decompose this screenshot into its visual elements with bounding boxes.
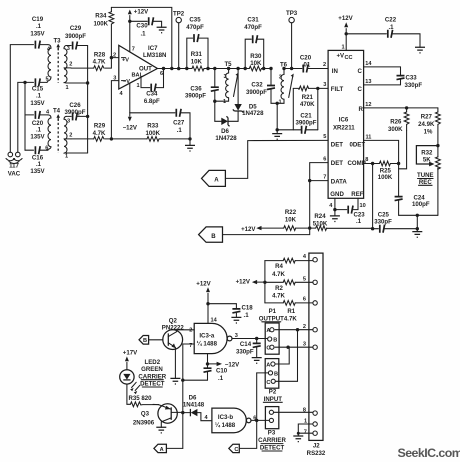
ground C14 — [252, 358, 262, 364]
svg-text:XR2211: XR2211 — [333, 124, 355, 131]
svg-text:TP3: TP3 — [286, 10, 298, 17]
svg-text:C15: C15 — [32, 86, 44, 93]
svg-text:3900pF: 3900pF — [65, 33, 86, 40]
power +12V IC3a — [196, 281, 211, 324]
svg-text:3900pF: 3900pF — [185, 93, 206, 100]
svg-text:.1: .1 — [218, 375, 224, 382]
svg-text:R28: R28 — [94, 51, 106, 58]
svg-text:R30: R30 — [250, 53, 262, 60]
svg-text:T5: T5 — [224, 61, 232, 68]
ground C18 — [231, 317, 241, 323]
op-amp IC7 LM318N — [113, 45, 166, 97]
wire IC3a bottom pin — [207, 354, 209, 364]
capacitor C18 — [208, 304, 253, 319]
svg-text:REF: REF — [351, 191, 363, 198]
svg-text:2: 2 — [303, 324, 306, 330]
svg-text:R31: R31 — [191, 51, 203, 58]
svg-text:2: 2 — [189, 327, 192, 333]
node P1A junction — [296, 328, 299, 331]
svg-text:BAL: BAL — [132, 73, 144, 79]
svg-text:R2: R2 — [275, 285, 283, 292]
svg-text:10K: 10K — [285, 217, 297, 224]
node R27/R32 junction — [436, 144, 439, 147]
wire P1C to J2 pin3 — [275, 346, 313, 348]
svg-text:A: A — [266, 362, 270, 368]
svg-text:.1: .1 — [388, 24, 394, 31]
node junction at C15 row — [23, 81, 26, 84]
svg-text:FILT: FILT — [331, 86, 344, 93]
svg-text:13: 13 — [365, 79, 371, 85]
svg-text:2: 2 — [69, 62, 72, 68]
svg-text:14: 14 — [365, 61, 372, 67]
wire P1B input — [265, 338, 267, 340]
svg-text:24.9K: 24.9K — [418, 121, 435, 128]
svg-text:.1: .1 — [177, 127, 183, 134]
svg-text:0DET: 0DET — [350, 142, 366, 149]
capacitor C36 — [185, 67, 219, 101]
svg-text:10K: 10K — [250, 60, 262, 67]
svg-text:C18: C18 — [242, 304, 254, 311]
svg-text:135V: 135V — [30, 168, 45, 175]
svg-text:¼ 1488: ¼ 1488 — [197, 341, 218, 348]
svg-text:IC6: IC6 — [339, 117, 349, 124]
svg-text:R24: R24 — [314, 213, 326, 220]
svg-text:R34: R34 — [95, 12, 107, 19]
svg-text:OUT: OUT — [139, 65, 152, 72]
svg-text:14: 14 — [211, 318, 218, 324]
wire IC3b output row — [251, 419, 269, 421]
svg-text:6: 6 — [45, 146, 48, 152]
svg-text:P2: P2 — [269, 388, 277, 395]
node T3 pin1 junction — [86, 81, 89, 84]
gate IC3-b 1488 — [205, 408, 257, 433]
inductor T5 — [215, 61, 239, 105]
test point TP3 — [286, 10, 298, 70]
svg-text:RS232: RS232 — [307, 450, 326, 457]
svg-text:330pF: 330pF — [405, 82, 423, 89]
wire COMP pin8 row — [364, 163, 380, 165]
svg-text:2: 2 — [69, 133, 72, 139]
svg-text:470K: 470K — [300, 101, 315, 108]
capacitor C19 — [30, 16, 48, 49]
node feedback at output — [170, 67, 173, 70]
ground R33 — [185, 139, 195, 151]
svg-text:+V: +V — [122, 57, 129, 63]
svg-text:R26: R26 — [390, 119, 402, 126]
svg-text:R22: R22 — [285, 209, 297, 216]
svg-text:C26: C26 — [69, 102, 81, 109]
transistor Q3 2N3906 — [133, 404, 183, 428]
wire P2A riser to P1C row — [275, 347, 289, 364]
wire P1A to J2 pin2 — [275, 329, 313, 331]
diode D6 1N4728 — [215, 116, 238, 142]
svg-text:6.8pF: 6.8pF — [144, 98, 160, 105]
capacitor C34 feedback — [141, 67, 165, 105]
node IC7 pin2 junction — [110, 56, 113, 59]
svg-text:R32: R32 — [421, 149, 433, 156]
wire IC3a output row — [232, 338, 268, 340]
wire T4 pin1 row — [66, 152, 88, 154]
svg-text:R1: R1 — [287, 308, 295, 315]
wire B to Q2 base — [149, 339, 163, 341]
svg-text:PN2222: PN2222 — [162, 325, 185, 332]
capacitor C24 — [395, 164, 438, 216]
connector J1 117VAC terminal right — [9, 152, 22, 163]
capacitor C30 — [130, 17, 162, 37]
svg-text:135V: 135V — [30, 100, 45, 107]
capacitor C20 — [25, 111, 48, 140]
svg-text:5K: 5K — [423, 156, 431, 163]
node R33 ground junction — [188, 137, 191, 140]
svg-text:C35: C35 — [189, 17, 201, 24]
svg-text:P3: P3 — [268, 430, 276, 437]
capacitor C26 — [64, 102, 87, 120]
wire T6 ground riser — [276, 103, 278, 133]
svg-text:IC3-a: IC3-a — [199, 333, 215, 340]
node B flag small — [139, 336, 149, 345]
wire R4/R2/R1 vertical — [264, 261, 266, 303]
svg-text:510K: 510K — [313, 220, 328, 227]
svg-text:D6: D6 — [189, 394, 197, 401]
wire R26 bottom jog — [399, 131, 407, 169]
capacitor C31 parallel — [244, 17, 266, 71]
node pin3/R29/R33 junction — [110, 137, 113, 140]
wire A small to Q3 riser — [166, 447, 182, 449]
svg-text:+12V: +12V — [196, 281, 211, 288]
svg-text:A: A — [160, 447, 164, 453]
ground T6 — [272, 134, 282, 140]
svg-text:12: 12 — [365, 102, 371, 108]
svg-text:Q2: Q2 — [169, 317, 178, 324]
svg-text:T4: T4 — [53, 108, 61, 115]
svg-text:10: 10 — [360, 203, 366, 209]
svg-text:J2: J2 — [313, 443, 320, 450]
svg-text:Q3: Q3 — [141, 410, 150, 417]
wire output row — [157, 68, 192, 70]
ground Q2 emitter — [170, 378, 180, 384]
svg-text:R: R — [359, 106, 364, 113]
svg-text:LM318N: LM318N — [143, 52, 166, 59]
svg-text:IC7: IC7 — [148, 45, 158, 52]
test point TP2 — [173, 11, 185, 71]
node R22/R24/DATA junction — [308, 226, 311, 229]
transistor Q2 PN2222 — [162, 317, 194, 378]
svg-text:C22: C22 — [385, 17, 397, 24]
svg-text:330pF: 330pF — [236, 348, 254, 355]
potentiometer R32 5K — [416, 146, 440, 216]
svg-text:DATA: DATA — [331, 179, 348, 186]
resistor R34 — [94, 7, 114, 57]
svg-text:DET: DET — [331, 142, 343, 149]
wire P3 top to J2 pin8 — [274, 411, 313, 413]
svg-text:IN: IN — [332, 68, 338, 75]
node T6/C32 junction — [276, 102, 279, 105]
svg-text:2: 2 — [323, 62, 326, 68]
svg-text:1N4148: 1N4148 — [183, 402, 205, 409]
svg-text:7: 7 — [132, 47, 135, 53]
wire DATA pin7 row — [310, 180, 328, 182]
capacitor C29 — [65, 25, 88, 49]
svg-text:C29: C29 — [70, 25, 82, 32]
svg-text:5: 5 — [303, 276, 306, 282]
svg-text:R4: R4 — [275, 263, 283, 270]
resistor R22 — [284, 209, 316, 230]
svg-text:3: 3 — [224, 74, 227, 80]
svg-text:.1: .1 — [36, 93, 42, 100]
svg-text:+12V: +12V — [241, 226, 256, 233]
resistor R21 and FILT row — [293, 86, 328, 108]
resistor R4 — [265, 258, 313, 278]
svg-text:6: 6 — [303, 297, 306, 303]
svg-text:6: 6 — [323, 156, 326, 162]
svg-text:SeekIC.com: SeekIC.com — [398, 446, 460, 460]
ground J2 — [293, 436, 303, 442]
node C21 row junction — [276, 128, 279, 131]
IC U6 XR2211 — [323, 45, 372, 209]
svg-text:100K: 100K — [94, 20, 109, 27]
capacitor C27 — [130, 109, 190, 139]
connector P1 OUTPUT — [259, 308, 284, 354]
svg-text:135V: 135V — [30, 133, 45, 140]
power +17V — [123, 350, 138, 370]
diode D5 zener 1N4728 — [233, 67, 264, 122]
svg-text:1: 1 — [223, 99, 226, 105]
node C24 row junction — [416, 214, 419, 217]
svg-text:B: B — [143, 338, 147, 344]
svg-text:LED2: LED2 — [145, 359, 161, 366]
svg-text:8: 8 — [365, 157, 368, 163]
svg-text:5: 5 — [323, 134, 326, 140]
wire pin2 row — [111, 57, 118, 59]
svg-text:C36: C36 — [190, 85, 202, 92]
gate IC3-a 1488 — [189, 318, 238, 354]
capacitor C32 — [246, 67, 277, 104]
wire riser to D6 row — [214, 101, 216, 121]
node COMP junction — [371, 162, 374, 165]
svg-text:3: 3 — [303, 341, 306, 347]
capacitor C35 parallel — [185, 17, 210, 71]
capacitor C25 — [373, 211, 418, 232]
wire C to P2B riser — [239, 373, 256, 449]
svg-text:300K: 300K — [388, 126, 403, 133]
svg-text:C10: C10 — [216, 368, 228, 375]
svg-text:+12V: +12V — [338, 15, 353, 22]
svg-text:.1: .1 — [356, 218, 362, 225]
svg-text:−12V: −12V — [123, 125, 138, 132]
svg-text:D6: D6 — [221, 128, 229, 135]
svg-text:7: 7 — [304, 430, 307, 436]
wire COMP riser to C25 — [372, 164, 374, 229]
svg-text:.01: .01 — [302, 61, 311, 68]
label 117 VAC — [8, 163, 21, 178]
svg-text:C: C — [358, 86, 363, 93]
node Q3 collector junction — [181, 411, 184, 414]
svg-text:C34: C34 — [146, 91, 158, 98]
svg-text:4.7K: 4.7K — [272, 293, 285, 300]
ground Q3 — [156, 427, 166, 433]
svg-text:100K: 100K — [146, 130, 161, 137]
power +12V arrow row — [241, 226, 284, 233]
resistor R27 — [418, 108, 440, 146]
svg-text:2: 2 — [113, 52, 116, 58]
svg-text:11: 11 — [366, 135, 372, 141]
svg-text:3900pF: 3900pF — [246, 89, 267, 96]
svg-text:3900pF: 3900pF — [295, 120, 316, 127]
resistor R1 — [265, 301, 313, 323]
svg-text:1: 1 — [66, 85, 69, 91]
wire pin12 row — [364, 107, 438, 109]
wire IC7 pin3 riser — [111, 81, 118, 139]
resistor R35 820 — [127, 395, 159, 407]
wire left AC riser — [10, 45, 33, 153]
svg-text:CC: CC — [345, 55, 353, 61]
svg-text:1N4728: 1N4728 — [215, 135, 237, 142]
svg-text:6: 6 — [160, 71, 163, 77]
wire J2 pins 1 and 7 to ground — [297, 424, 313, 436]
svg-text:C30: C30 — [136, 23, 148, 30]
node C14 junction — [255, 337, 258, 340]
power +12V arrow row2 — [236, 279, 267, 286]
svg-text:C20: C20 — [300, 54, 312, 61]
svg-text:330pF: 330pF — [374, 218, 392, 225]
svg-text:GND: GND — [330, 191, 344, 198]
svg-text:GREEN: GREEN — [141, 366, 163, 373]
connector P2 INPUT — [263, 359, 282, 403]
svg-text:T3: T3 — [53, 38, 61, 45]
resistor R31 — [191, 51, 215, 71]
capacitor C15 — [25, 78, 47, 106]
node A flag small — [154, 444, 167, 453]
capacitor C20 .01 — [284, 54, 328, 72]
node A flag — [202, 170, 226, 186]
wire P2C riser to P1A row — [275, 330, 297, 382]
label LED2 GREEN CARRIER DETECT — [138, 359, 166, 388]
svg-text:R33: R33 — [147, 122, 159, 129]
svg-text:1: 1 — [137, 83, 140, 89]
node C26 junction — [86, 115, 89, 118]
svg-text:117: 117 — [9, 163, 19, 170]
node C25 row ground junction — [416, 227, 419, 230]
svg-text:C33: C33 — [406, 75, 418, 82]
svg-text:7: 7 — [323, 174, 326, 180]
svg-text:4.7K: 4.7K — [272, 271, 285, 278]
power +12V IC7 — [128, 8, 149, 51]
ground IC6 pin4 — [330, 198, 340, 221]
svg-text:4.7K: 4.7K — [93, 59, 106, 66]
svg-text:1%: 1% — [424, 128, 433, 135]
wire T3 secondary return riser — [87, 46, 89, 154]
wire B to DATA riser — [223, 163, 329, 235]
node C flag small — [229, 444, 240, 453]
label TUNE REC — [417, 172, 434, 186]
svg-text:IC3-b: IC3-b — [218, 414, 234, 421]
svg-text:135V: 135V — [30, 31, 45, 38]
capacitor C21 — [277, 88, 318, 133]
svg-text:+12V: +12V — [134, 8, 149, 15]
connector J1 117VAC terminal left — [6, 152, 15, 161]
svg-text:C32: C32 — [251, 82, 263, 89]
capacitor C16 — [25, 146, 48, 175]
resistor R26 — [388, 106, 409, 133]
svg-text:B: B — [274, 371, 278, 377]
svg-text:100K: 100K — [378, 174, 393, 181]
svg-text:B: B — [211, 233, 216, 240]
svg-text:¼ 1488: ¼ 1488 — [215, 422, 236, 429]
node COMP/C25 junction — [371, 227, 374, 230]
svg-text:10K: 10K — [191, 58, 203, 65]
wire feedback top rail — [111, 7, 171, 68]
connector P3 CARRIER DETECT — [258, 407, 286, 452]
svg-text:1: 1 — [65, 154, 68, 160]
svg-text:COMP: COMP — [348, 160, 366, 167]
resistor R24 — [313, 213, 373, 231]
svg-text:R35 820: R35 820 — [128, 395, 152, 402]
wire junction riser to C25 row — [416, 215, 418, 228]
svg-text:.1: .1 — [36, 23, 42, 30]
wire cap bus riser — [24, 82, 26, 150]
svg-text:1: 1 — [279, 99, 282, 105]
node P2B riser junction — [255, 419, 258, 422]
svg-text:A: A — [214, 177, 219, 184]
svg-text:R27: R27 — [421, 114, 433, 121]
svg-text:C19: C19 — [32, 16, 44, 23]
capacitor C23 — [335, 198, 365, 225]
capacitor C10 — [183, 364, 228, 382]
resistor R25 — [378, 161, 401, 181]
wire A to DET pin5 — [225, 140, 328, 178]
ground C30 — [157, 27, 167, 33]
svg-text:C14: C14 — [240, 341, 252, 348]
svg-text:4.7K: 4.7K — [93, 130, 106, 137]
LED2 — [120, 370, 140, 401]
power -12V IC7 — [123, 113, 138, 132]
svg-text:+12V: +12V — [236, 279, 251, 286]
svg-text:470pF: 470pF — [244, 24, 262, 31]
power -12V IC3a — [208, 362, 241, 369]
svg-text:R29: R29 — [94, 122, 106, 129]
svg-text:C21: C21 — [300, 112, 312, 119]
svg-text:DET: DET — [331, 160, 343, 167]
svg-text:VAC: VAC — [8, 171, 21, 178]
wire pin7/A riser — [182, 344, 184, 448]
diode D6 1N4148 — [183, 394, 212, 420]
svg-text:.1: .1 — [140, 30, 146, 37]
svg-text:C31: C31 — [247, 17, 259, 24]
svg-text:B: B — [273, 338, 277, 344]
capacitor C22 — [346, 17, 420, 48]
capacitor C14 — [236, 339, 261, 358]
svg-text:3900pF: 3900pF — [64, 109, 85, 116]
svg-text:1: 1 — [342, 45, 345, 51]
svg-text:8: 8 — [303, 407, 306, 413]
ground C22 — [415, 47, 425, 53]
capacitor C33 pins14-13 — [364, 67, 423, 89]
inductor T6 — [277, 62, 294, 106]
transformer T3 — [46, 38, 73, 92]
svg-text:P1: P1 — [269, 308, 277, 315]
connector J2 RS232 — [303, 253, 326, 457]
wire 0DET pin11 row — [364, 140, 399, 163]
node T5/C36 junction — [213, 100, 216, 103]
svg-text:4.7K: 4.7K — [284, 315, 297, 322]
wire IC7 pin4 stub — [129, 83, 131, 113]
wire P2B row — [257, 372, 269, 374]
svg-text:3: 3 — [67, 46, 70, 52]
resistor R2 — [265, 280, 313, 300]
svg-text:C: C — [266, 380, 270, 386]
svg-text:100pF: 100pF — [412, 201, 430, 208]
power +12V IC6 — [338, 15, 353, 51]
